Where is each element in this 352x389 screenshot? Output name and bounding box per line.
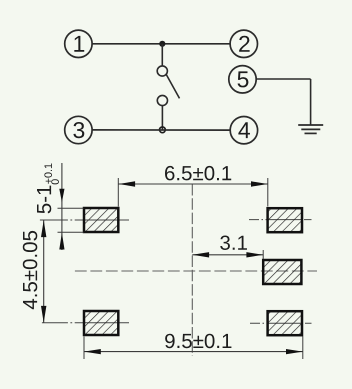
tolerance text +0.1 rotated	[44, 164, 52, 184]
dimension 5-1 extension line top	[58, 207, 84, 209]
wire bottom contact to wire3-4	[161, 106, 163, 130]
wire terminal1 to terminal2	[92, 43, 230, 45]
arrow 9.5 left	[84, 349, 101, 354]
switch lever	[166, 74, 179, 98]
dimension 5-1 line vertical	[61, 163, 63, 250]
dimension text 6.5	[165, 166, 231, 181]
dimension 6.5 extension line right	[267, 178, 269, 207]
pad row center line top-left	[40, 219, 129, 221]
arrow 6.5 right	[251, 181, 268, 186]
dimension 9.5 extension line right	[302, 337, 304, 360]
pad top-right	[268, 208, 302, 232]
terminal 1	[65, 30, 92, 57]
dimension text 4.5 rotated	[23, 231, 38, 309]
arrow 3.1 right	[246, 252, 263, 257]
switch contact circle top	[157, 66, 167, 76]
terminal 4	[230, 117, 257, 144]
wire terminal5 down to ground	[310, 79, 312, 125]
dimension text 9.5	[165, 334, 231, 349]
pad row center line bottom-left	[42, 322, 129, 324]
wire terminal5 horizontal	[256, 78, 311, 80]
switch contact circle bottom	[157, 95, 167, 105]
pad bottom-left	[84, 311, 118, 335]
tolerance text 0 rotated	[51, 179, 59, 184]
center line vertical	[191, 184, 193, 356]
center line horizontal	[75, 270, 317, 272]
arrow 5-1 down (tip above pad top)	[59, 189, 64, 203]
terminal 3	[65, 116, 92, 143]
junction dot node	[159, 41, 165, 47]
dimension 9.5 extension line left	[83, 337, 85, 360]
arrow 9.5 right	[286, 349, 303, 354]
dimension 3.1 extension line	[262, 250, 264, 259]
terminal 5	[229, 66, 256, 93]
dimension line 3.1	[192, 254, 263, 256]
pad row center line top-right	[249, 219, 312, 221]
pad row center line bottom-right	[250, 322, 312, 324]
arrow 4.5 up	[41, 220, 46, 237]
arrow 6.5 left	[118, 181, 135, 186]
dimension line 9.5	[84, 351, 303, 353]
wire junction to movable contact	[161, 44, 163, 66]
arrow 4.5 down	[41, 306, 46, 323]
arrow 3.1 left	[192, 252, 209, 257]
wire terminal3 to terminal4	[92, 129, 231, 131]
arrow 5-1 up (tip at pad bottom)	[59, 233, 64, 250]
dimension 6.5 extension line left	[117, 178, 119, 207]
pad middle-right	[263, 260, 301, 284]
dimension 5-1 extension line bottom	[58, 231, 84, 233]
pad bottom-right	[268, 311, 302, 335]
junction circle on wire 3-4	[160, 127, 166, 133]
ground	[298, 125, 323, 133]
dimension line 6.5	[118, 183, 267, 185]
dimension line 4.5 vertical	[43, 220, 45, 323]
dimension text 5-1 rotated	[37, 186, 51, 214]
terminal 2	[230, 30, 257, 57]
dimension text 3.1	[220, 235, 247, 250]
pad top-left	[84, 208, 118, 232]
